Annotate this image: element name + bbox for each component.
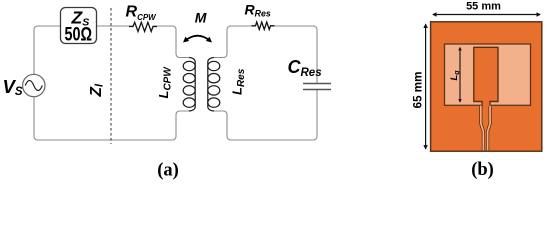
svg-text:Zl: Zl — [88, 83, 105, 97]
svg-text:VS: VS — [3, 76, 23, 98]
svg-text:55 mm: 55 mm — [466, 1, 501, 13]
svg-text:LCPW: LCPW — [156, 66, 174, 99]
svg-text:RCPW: RCPW — [126, 4, 158, 22]
svg-text:65 mm: 65 mm — [411, 72, 424, 109]
svg-text:(b): (b) — [471, 160, 494, 180]
svg-text:LRes: LRes — [230, 68, 248, 95]
svg-text:50Ω: 50Ω — [65, 24, 93, 45]
svg-text:M: M — [195, 10, 207, 26]
svg-text:(a): (a) — [157, 161, 179, 181]
svg-text:RRes: RRes — [245, 2, 271, 19]
